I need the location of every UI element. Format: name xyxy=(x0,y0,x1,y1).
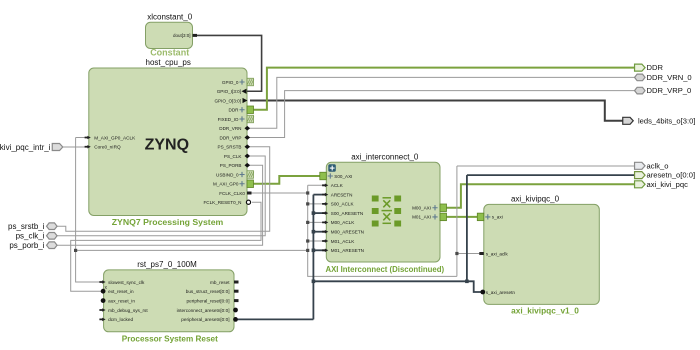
svg-text:rst_ps7_0_100M: rst_ps7_0_100M xyxy=(137,260,197,269)
svg-text:GPIO_0: GPIO_0 xyxy=(222,80,239,85)
svg-text:Core0_nIRQ: Core0_nIRQ xyxy=(94,145,121,150)
svg-text:aux_reset_in: aux_reset_in xyxy=(108,298,135,303)
svg-text:dcm_locked: dcm_locked xyxy=(108,317,133,322)
svg-text:DDR_VRN_0: DDR_VRN_0 xyxy=(647,73,692,82)
svg-text:leds_4bits_o[3:0]: leds_4bits_o[3:0] xyxy=(638,116,695,125)
svg-text:axi_kivipqc_0: axi_kivipqc_0 xyxy=(511,195,560,204)
svg-text:USBIND_0: USBIND_0 xyxy=(216,172,239,177)
svg-text:S00_AXI: S00_AXI xyxy=(334,174,352,179)
svg-text:interconnect_aresetn[0:0]: interconnect_aresetn[0:0] xyxy=(177,308,230,313)
svg-text:ps_srstb_i: ps_srstb_i xyxy=(8,222,45,231)
svg-text:DDR_VRN: DDR_VRN xyxy=(219,126,241,131)
svg-text:DDR: DDR xyxy=(647,63,664,72)
svg-text:FCLK_RESET0_N: FCLK_RESET0_N xyxy=(203,200,241,205)
svg-text:peripheral_aresetn[0:0]: peripheral_aresetn[0:0] xyxy=(181,317,229,322)
svg-text:s_axi_aclk: s_axi_aclk xyxy=(486,251,509,256)
svg-text:AXI Interconnect (Discontinued: AXI Interconnect (Discontinued) xyxy=(325,265,444,274)
svg-text:M01_AXI: M01_AXI xyxy=(412,215,431,220)
svg-text:mb_debug_sys_rst: mb_debug_sys_rst xyxy=(108,308,148,313)
svg-text:M00_ARESETN: M00_ARESETN xyxy=(331,230,364,235)
svg-text:s_axi: s_axi xyxy=(492,215,503,220)
svg-text:DDR_VRP_0: DDR_VRP_0 xyxy=(647,86,692,95)
svg-text:host_cpu_ps: host_cpu_ps xyxy=(146,58,191,67)
svg-text:PS_SRSTB: PS_SRSTB xyxy=(218,145,242,150)
svg-text:kivi_pqc_intr_i: kivi_pqc_intr_i xyxy=(0,143,51,152)
svg-text:FIXED_IO: FIXED_IO xyxy=(218,117,239,122)
svg-text:M_AXI_GP0_ACLK: M_AXI_GP0_ACLK xyxy=(94,135,136,140)
svg-text:axi_kivi_pqc: axi_kivi_pqc xyxy=(647,180,689,189)
svg-text:PS_CLK: PS_CLK xyxy=(224,154,243,159)
svg-text:ACLK: ACLK xyxy=(331,183,344,188)
svg-text:ZYNQ7 Processing System: ZYNQ7 Processing System xyxy=(112,217,224,227)
svg-text:bus_struct_reset[0:0]: bus_struct_reset[0:0] xyxy=(186,289,230,294)
svg-text:dout[3:0]: dout[3:0] xyxy=(173,33,191,38)
svg-text:axi_kivipqc_v1_0: axi_kivipqc_v1_0 xyxy=(511,305,579,315)
svg-text:GPIO_O[3:0]: GPIO_O[3:0] xyxy=(214,98,241,103)
svg-text:Processor System Reset: Processor System Reset xyxy=(122,335,218,344)
svg-text:M00_AXI: M00_AXI xyxy=(412,206,431,211)
svg-text:ext_reset_in: ext_reset_in xyxy=(108,289,134,294)
svg-text:M00_ACLK: M00_ACLK xyxy=(331,220,355,225)
svg-text:PS_PORB: PS_PORB xyxy=(220,163,242,168)
svg-text:M01_ACLK: M01_ACLK xyxy=(331,239,355,244)
svg-text:S00_ACLK: S00_ACLK xyxy=(331,202,355,207)
svg-text:axi_interconnect_0: axi_interconnect_0 xyxy=(351,153,419,162)
svg-text:Constant: Constant xyxy=(150,47,189,57)
svg-text:slowest_sync_clk: slowest_sync_clk xyxy=(108,280,145,285)
svg-text:ps_clk_i: ps_clk_i xyxy=(16,232,45,241)
svg-text:M_AXI_GP0: M_AXI_GP0 xyxy=(213,182,239,187)
svg-text:DDR_VRP: DDR_VRP xyxy=(220,135,242,140)
svg-text:DDR: DDR xyxy=(229,108,240,113)
svg-text:mb_reset: mb_reset xyxy=(210,280,230,285)
svg-text:FCLK_CLK0: FCLK_CLK0 xyxy=(219,191,245,196)
svg-text:M01_ARESETN: M01_ARESETN xyxy=(331,248,364,253)
svg-text:aresetn_o[0:0]: aresetn_o[0:0] xyxy=(647,171,696,180)
svg-text:ARESETN: ARESETN xyxy=(331,192,353,197)
svg-text:aclk_o: aclk_o xyxy=(647,161,669,170)
svg-text:s_axi_aresetn: s_axi_aresetn xyxy=(486,290,516,295)
svg-text:ZYNQ: ZYNQ xyxy=(145,137,189,154)
svg-text:peripheral_reset[0:0]: peripheral_reset[0:0] xyxy=(187,298,230,303)
svg-text:xlconstant_0: xlconstant_0 xyxy=(147,13,192,22)
svg-text:S00_ARESETN: S00_ARESETN xyxy=(331,211,363,216)
svg-text:ps_porb_i: ps_porb_i xyxy=(9,241,44,250)
svg-text:GPIO_I[3:0]: GPIO_I[3:0] xyxy=(217,89,241,94)
